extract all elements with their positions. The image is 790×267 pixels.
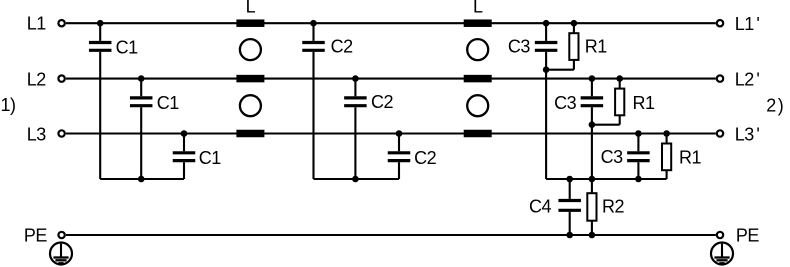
capacitor C3 (a) on L1 [535, 23, 558, 179]
wire R1a elbow to C3a [546, 69, 574, 71]
svg-text:C2: C2 [371, 92, 393, 112]
svg-text:L3: L3 [27, 124, 47, 144]
wire R1b elbow to C3b [592, 124, 620, 126]
terminal L2 left [58, 75, 64, 81]
junction C2b on L2 [352, 75, 359, 82]
choke L core circle 2 (stage 2) [467, 95, 488, 116]
choke L winding 3 (stage 1) [236, 130, 264, 138]
junction C3c on L3 [635, 130, 642, 137]
junction R1c on L3 [663, 130, 670, 137]
capacitor C3 (c) on L3 [627, 134, 650, 180]
terminal PE right [717, 232, 723, 238]
junction C3a on L1 [543, 20, 550, 27]
svg-text:L: L [473, 0, 483, 17]
choke L winding 1 (stage 1) [236, 19, 264, 27]
choke L winding 1 (stage 2) [464, 19, 492, 27]
svg-text:2): 2) [766, 95, 783, 115]
svg-text:C2: C2 [414, 148, 436, 168]
capacitor C1 (c) on L3 [173, 134, 196, 180]
svg-text:L2': L2' [735, 69, 760, 89]
wire L3 bus [66, 132, 716, 134]
resistor R1 (b) on L2 [615, 79, 624, 125]
junction C2c on L3 [396, 130, 403, 137]
ground protective-earth symbol left [50, 243, 72, 265]
ground protective-earth symbol right [711, 243, 733, 265]
terminal PE left [58, 232, 64, 238]
svg-text:R1: R1 [633, 93, 655, 113]
svg-text:C1: C1 [199, 148, 221, 168]
junction C1a on L1 [97, 20, 104, 27]
wire PE bus [66, 234, 716, 236]
svg-text:C3: C3 [508, 36, 530, 56]
wire output-stage common rail [546, 178, 667, 180]
choke L core circle 1 (stage 2) [467, 39, 488, 60]
junction C3a/R1a join [543, 66, 550, 73]
junction C1b on L2 [138, 75, 145, 82]
junction R1a on L1 [571, 20, 578, 27]
choke L winding 2 (stage 1) [236, 75, 264, 83]
terminal L1 left [58, 20, 64, 26]
junction C1 rail [138, 176, 145, 183]
resistor R1 (c) on L3 [662, 134, 671, 180]
wire L2 bus [66, 78, 716, 80]
junction C4 top on rail [566, 176, 573, 183]
terminal L1' right [717, 20, 723, 26]
svg-text:1): 1) [1, 95, 16, 115]
svg-text:L1': L1' [735, 14, 760, 34]
capacitor C1 (b) on L2 [130, 79, 153, 179]
capacitor C1 (a) on L1 [89, 23, 112, 179]
svg-text:R1: R1 [679, 148, 701, 168]
choke L winding 2 (stage 2) [464, 75, 492, 83]
junction C3c on rail [635, 176, 642, 183]
svg-text:PE: PE [24, 226, 48, 246]
terminal L3 left [58, 130, 64, 136]
svg-text:C1: C1 [157, 93, 179, 113]
capacitor C4 rail-to-PE [558, 179, 581, 235]
junction R2/stage2 on rail [589, 176, 596, 183]
junction C2 rail [352, 176, 359, 183]
svg-text:C4: C4 [529, 197, 551, 217]
choke L core circle 1 (stage 1) [240, 39, 261, 60]
terminal L2' right [717, 75, 723, 81]
capacitor C2 (c) on L3 [388, 134, 411, 180]
junction C1c on L3 [181, 130, 188, 137]
junction C2a on L1 [310, 20, 317, 27]
svg-text:C3: C3 [601, 147, 623, 167]
capacitor C2 (b) on L2 [344, 79, 367, 179]
resistor R2 rail-to-PE [587, 179, 596, 235]
svg-text:L2: L2 [27, 70, 47, 90]
terminal L3' right [717, 130, 723, 136]
junction R2 on PE [589, 232, 596, 239]
junction C3b/R1b join [589, 121, 596, 128]
capacitor C2 (a) on L1 [302, 23, 325, 179]
svg-text:C3: C3 [554, 93, 576, 113]
svg-text:PE: PE [736, 226, 760, 246]
svg-text:L1: L1 [27, 14, 47, 34]
svg-text:C2: C2 [331, 37, 353, 57]
wire C1 star rail [100, 178, 184, 180]
svg-text:C1: C1 [116, 38, 138, 58]
junction R1b on L2 [616, 75, 623, 82]
junction C4 on PE [566, 232, 573, 239]
svg-text:L3': L3' [735, 124, 760, 144]
choke L core circle 2 (stage 1) [240, 95, 261, 116]
wire L1 bus [66, 22, 716, 24]
capacitor C3 (b) on L2 [581, 79, 604, 179]
svg-text:R2: R2 [602, 197, 624, 217]
svg-text:L: L [246, 0, 256, 17]
choke L winding 3 (stage 2) [464, 130, 492, 138]
svg-text:R1: R1 [585, 36, 607, 56]
junction C3b on L2 [589, 75, 596, 82]
wire C2 star rail [314, 178, 400, 180]
resistor R1 (a) on L1 [569, 23, 578, 69]
